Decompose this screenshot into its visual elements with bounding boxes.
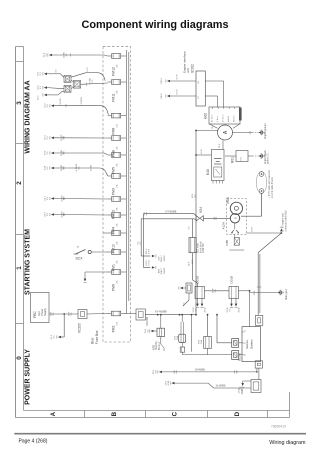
starter solenoid — [230, 214, 239, 223]
connector terminal X1 (row to fuse FM12) — [44, 52, 52, 57]
fuse FM2 — [108, 311, 127, 332]
wire feed to F04 — [181, 314, 183, 334]
section label STARTING SYSTEM — [25, 229, 32, 295]
wire diode block to relay D01A — [189, 253, 198, 287]
svg-text:0.5 K: 0.5 K — [177, 74, 179, 80]
drawing frame border — [16, 47, 290, 418]
wire D01B to battery sensor — [239, 290, 251, 327]
section label POWER SUPPLY — [25, 349, 32, 405]
svg-text:SCX: SCX — [76, 257, 84, 261]
svg-text:EM:4: EM:4 — [161, 78, 163, 84]
svg-text:4 R: 4 R — [155, 370, 157, 374]
svg-text:1: 1 — [16, 266, 23, 270]
relay D01B — [229, 276, 239, 299]
splice block S1 — [64, 76, 71, 83]
svg-text:XC206: XC206 — [145, 316, 149, 326]
wire terminal 30 row — [153, 369, 258, 375]
svg-text:4 R: 4 R — [237, 370, 239, 374]
svg-text:L Term: L Term — [217, 116, 219, 122]
wire battery sensor bottom to battery connector — [258, 368, 260, 379]
svg-text:FM11: FM11 — [111, 93, 115, 102]
svg-text:0.5 R: 0.5 R — [149, 260, 151, 266]
svg-text:K55: K55 — [151, 344, 155, 350]
wire feed to K55 — [160, 314, 162, 328]
alternator G02 terminal block — [204, 107, 241, 124]
svg-text:3: 3 — [16, 101, 23, 105]
svg-text:D03 relay: D03 relay — [197, 242, 200, 253]
svg-text:G02: G02 — [204, 113, 208, 119]
svg-text:B: B — [111, 411, 118, 416]
wire row to fuse FM6 — [45, 96, 109, 114]
svg-text:D: D — [234, 411, 241, 416]
connector K54 — [196, 207, 203, 221]
svg-text:2: 2 — [16, 181, 23, 185]
battery sensor left lower connector — [232, 351, 242, 360]
svg-text:FM3: FM3 — [111, 188, 115, 195]
svg-text:Start Rly: Start Rly — [155, 340, 158, 350]
svg-text:Battery: Battery — [250, 339, 254, 349]
battery sensor top connector — [255, 315, 262, 325]
wire branch down from KT-W088 — [138, 214, 151, 268]
battery sensor left upper connector — [232, 339, 242, 348]
fuse FM12 — [108, 54, 127, 76]
wire D01B to main ground — [250, 292, 278, 294]
wire row to fuse FM8 — [45, 134, 108, 141]
svg-text:block diode: block diode — [200, 241, 202, 253]
wire KT-W088 upper to K54 — [144, 210, 197, 216]
svg-text:A12A: A12A — [222, 221, 226, 230]
svg-text:D01B: D01B — [229, 276, 233, 284]
wire stub fuse FM10 — [103, 232, 108, 234]
alternator G02 output terminal bar — [239, 108, 242, 121]
wire R01 to engine block ground — [248, 155, 259, 157]
wire fuse FM2 to XC206 — [126, 313, 136, 315]
svg-text:WIRING DIAGRAM AA: WIRING DIAGRAM AA — [25, 80, 32, 153]
svg-text:S: S — [233, 217, 237, 219]
svg-text:0.5 K: 0.5 K — [177, 89, 179, 95]
wire starter B+ to battery junction — [246, 232, 282, 234]
svg-text:Main gnd: Main gnd — [284, 289, 288, 300]
wire XC205 to fuse FM2 — [87, 313, 108, 316]
svg-text:POWER SUPPLY: POWER SUPPLY — [25, 349, 32, 405]
resistor R01 — [231, 151, 249, 164]
svg-text:M04: M04 — [226, 197, 230, 203]
wire FRC to connector XC205 — [49, 311, 78, 316]
wire K48 to supply feed — [196, 149, 212, 155]
svg-text:16 RD: 16 RD — [60, 98, 62, 105]
grid column dividers and letters A B C D — [50, 411, 268, 418]
svg-text:25 R: 25 R — [254, 290, 256, 295]
svg-text:K54: K54 — [199, 207, 203, 213]
svg-text:16 R: 16 R — [201, 149, 203, 154]
relay K48 — [206, 150, 224, 184]
svg-text:D+ Term: D+ Term — [223, 114, 225, 122]
fuse FM10 — [108, 231, 127, 253]
terminal to cab harness upper — [146, 248, 166, 262]
ground engine (alternator) — [259, 123, 268, 139]
svg-text:Page 4 (268): Page 4 (268) — [19, 439, 48, 445]
wire row to fuse FM3 — [45, 163, 108, 176]
battery connector — [251, 380, 261, 393]
wire feed to P04 — [207, 314, 209, 337]
svg-text:SW08: SW08 — [164, 255, 166, 262]
svg-text:4 SB: 4 SB — [241, 388, 243, 393]
splice block S2 — [73, 81, 80, 89]
svg-text:MA-LT: MA-LT — [160, 267, 163, 274]
wire IC302 to alternator D+ — [205, 81, 223, 107]
wire feed line to bus — [191, 314, 193, 352]
fuse FM4 — [108, 213, 127, 234]
wire D01A to D01B — [205, 288, 230, 293]
label A12A — [222, 221, 226, 230]
svg-text:FM9: FM9 — [111, 284, 115, 291]
connector terminal X2 (rows to fuse FM11) — [38, 71, 47, 100]
wire row to fuse FM13 — [45, 195, 108, 202]
section label WIRING DIAGRAM AA — [25, 80, 32, 153]
hydraulic power supply unit FRC — [31, 293, 50, 323]
ECU connector IC302 — [196, 71, 205, 106]
wire alternator B+ down to relay K48 — [219, 140, 223, 149]
cable harness grommet — [256, 170, 274, 198]
connector XC206 — [136, 309, 149, 326]
svg-text:ACM 5LP: ACM 5LP — [202, 243, 205, 253]
fuse FM5 — [108, 153, 127, 174]
wire bus below K55 F04 P04 — [161, 337, 232, 355]
wire GR1 pin down — [183, 293, 189, 306]
wire K54 to starter solenoid A12A — [203, 216, 230, 220]
wire splice S1 to fuse FM11 upper — [71, 67, 105, 81]
connector below F04 — [180, 343, 185, 353]
svg-text:B+ 75 engine and: B+ 75 engine and — [283, 213, 285, 232]
wire SCX to fuse FM1 — [91, 251, 108, 253]
svg-text:R01: R01 — [231, 157, 235, 163]
starter motor M04 — [226, 197, 242, 214]
svg-text:30-W088: 30-W088 — [195, 369, 205, 372]
svg-text:connector cable B(s): connector cable B(s) — [285, 210, 288, 231]
fuse FM11 — [108, 80, 127, 102]
svg-text:XC205: XC205 — [78, 323, 82, 333]
wire lower to K54 — [141, 219, 196, 220]
svg-text:A: A — [50, 411, 57, 416]
fuse FM8 — [108, 136, 127, 157]
svg-text:W Term: W Term — [234, 115, 236, 122]
terminal battery B+ feed — [252, 210, 288, 232]
svg-text:X2:3: X2:3 — [38, 95, 40, 100]
splice block S3 — [64, 85, 71, 92]
svg-text:30A: 30A — [176, 336, 179, 340]
svg-text:Fuse Box: Fuse Box — [95, 330, 99, 344]
wire terminal 31 row — [165, 380, 251, 394]
drawing number 78866410 — [271, 424, 286, 428]
svg-text:16 RD: 16 RD — [91, 164, 93, 171]
wire K48 to R01 — [225, 155, 236, 157]
svg-text:+1 DE06: +1 DE06 — [81, 96, 83, 105]
wire battery junction down to battery sensor — [254, 233, 281, 315]
wire IC302 to alternator sense — [205, 96, 217, 107]
connector XC205 — [78, 310, 87, 334]
terminal to cab harness lower — [146, 259, 166, 274]
fuse F04 — [174, 334, 185, 342]
svg-text:16 R: 16 R — [219, 143, 221, 148]
wire alternator to engine ground — [233, 131, 259, 135]
svg-text:FRC: FRC — [33, 311, 37, 318]
wire IC302 pin 27 to terminal — [161, 89, 196, 99]
wire splice S2 to fuse FM11 — [81, 77, 108, 85]
svg-text:KT-W088: KT-W088 — [166, 210, 177, 214]
page title — [81, 19, 228, 31]
fuse FM3 — [108, 174, 127, 195]
svg-text:16 R: 16 R — [189, 261, 191, 266]
ground engine block — [259, 150, 270, 164]
svg-text:Supply: Supply — [43, 307, 47, 316]
wire row to fuse FM9 — [83, 272, 108, 283]
relay D01A — [195, 275, 205, 299]
svg-text:30: 30 — [245, 354, 247, 356]
relay P04 — [198, 336, 211, 348]
svg-text:IC302: IC302 — [190, 64, 194, 73]
svg-text:STARTING SYSTEM: STARTING SYSTEM — [25, 229, 32, 295]
svg-text:ALM: ALM — [158, 269, 161, 274]
battery sensor bottom connector — [255, 361, 262, 368]
wire X2 terminals to splice blocks — [47, 69, 64, 95]
starter motor M04 dashed enclosure — [227, 199, 247, 235]
svg-text:Block of: Block of — [159, 341, 161, 350]
ground battery minus — [239, 381, 251, 394]
grid row ticks and numbers 3 2 1 0 — [16, 62, 24, 360]
label Engine interface unit IC302 — [183, 51, 195, 73]
svg-text:FM6: FM6 — [111, 128, 115, 135]
switch SCX — [74, 245, 92, 261]
wire supply feed vertical — [192, 131, 197, 315]
svg-text:FM12: FM12 — [111, 67, 115, 76]
fuse FM1 — [108, 250, 127, 271]
svg-text:31-W088: 31-W088 — [216, 385, 226, 388]
wire K54 to diode block — [189, 219, 193, 238]
wire row to fuse FM4 — [45, 211, 108, 218]
svg-text:FM2: FM2 — [111, 326, 115, 333]
wire branch to terminal below FRC — [51, 314, 64, 339]
relay K85 — [225, 234, 244, 250]
svg-text:25 R: 25 R — [252, 227, 254, 232]
svg-text:78866410: 78866410 — [271, 424, 286, 428]
svg-text:SW08: SW08 — [164, 267, 166, 274]
connector GR1 — [179, 283, 192, 293]
svg-text:EM:6: EM:6 — [161, 93, 163, 99]
wire feed to battery sensor upper connector — [216, 314, 232, 343]
footer label Wiring diagram — [269, 440, 306, 446]
svg-text:K48: K48 — [206, 169, 210, 175]
fuse FM6 — [108, 113, 127, 134]
svg-text:KY-W088: KY-W088 — [155, 310, 167, 314]
label Blue Fuse Box — [91, 330, 99, 344]
svg-text:to it if it cable B term: to it if it cable B term — [271, 177, 274, 198]
svg-text:30-W: 30-W — [205, 306, 207, 312]
svg-text:C: C — [171, 411, 178, 416]
relay K55 start relay — [151, 328, 164, 350]
svg-text:+ B 75 cable and connector: + B 75 cable and connector — [268, 170, 271, 198]
svg-text:0.5 R: 0.5 R — [149, 248, 151, 254]
fuse FM9 — [108, 270, 127, 291]
wire splice S1 to S2 — [71, 80, 73, 89]
wire D01A pins down — [193, 299, 207, 313]
svg-text:K85: K85 — [225, 240, 229, 246]
footer page number — [19, 439, 48, 445]
wire starter B+ to harness — [241, 193, 262, 216]
svg-text:D01A: D01A — [195, 275, 199, 284]
svg-text:B+ Term: B+ Term — [212, 114, 214, 122]
svg-text:MA-LT: MA-LT — [160, 255, 163, 262]
svg-text:4 SB: 4 SB — [168, 380, 170, 385]
wire row to fuse FM5 — [45, 149, 108, 156]
svg-text:FM5: FM5 — [111, 167, 115, 174]
footer rule — [14, 433, 306, 435]
svg-text:Engine ground: Engine ground — [264, 123, 267, 139]
svg-text:0: 0 — [16, 356, 23, 360]
starter contact — [231, 223, 239, 234]
wire D01B pins down — [227, 299, 241, 313]
wire IC302 pin 41 to terminal — [161, 74, 196, 84]
fuse box dashed enclosure (Blue Fuse Box) — [103, 46, 131, 342]
diode block D03 — [189, 238, 205, 254]
wire XC206 to feed node — [145, 310, 197, 316]
svg-text:50A: 50A — [200, 340, 203, 344]
ground main frame — [278, 289, 289, 300]
fuse FM13 — [108, 197, 127, 219]
terminal to K55 — [145, 328, 157, 333]
battery sensor unit — [237, 327, 260, 362]
svg-text:Batt Te: Batt Te — [227, 115, 230, 122]
svg-text:ground 31: ground 31 — [266, 153, 269, 164]
svg-text:30-W: 30-W — [239, 306, 241, 312]
svg-text:4 R: 4 R — [174, 370, 176, 374]
svg-text:31: 31 — [245, 330, 247, 332]
wire alternator left pin to feed — [195, 125, 218, 131]
wire fuse FM12 to X1 — [52, 51, 108, 58]
svg-text:Component wiring diagrams: Component wiring diagrams — [81, 19, 228, 31]
supply bus (double line) — [126, 50, 129, 314]
alternator G02 body — [209, 124, 240, 140]
svg-text:Wiring diagram: Wiring diagram — [269, 440, 306, 446]
